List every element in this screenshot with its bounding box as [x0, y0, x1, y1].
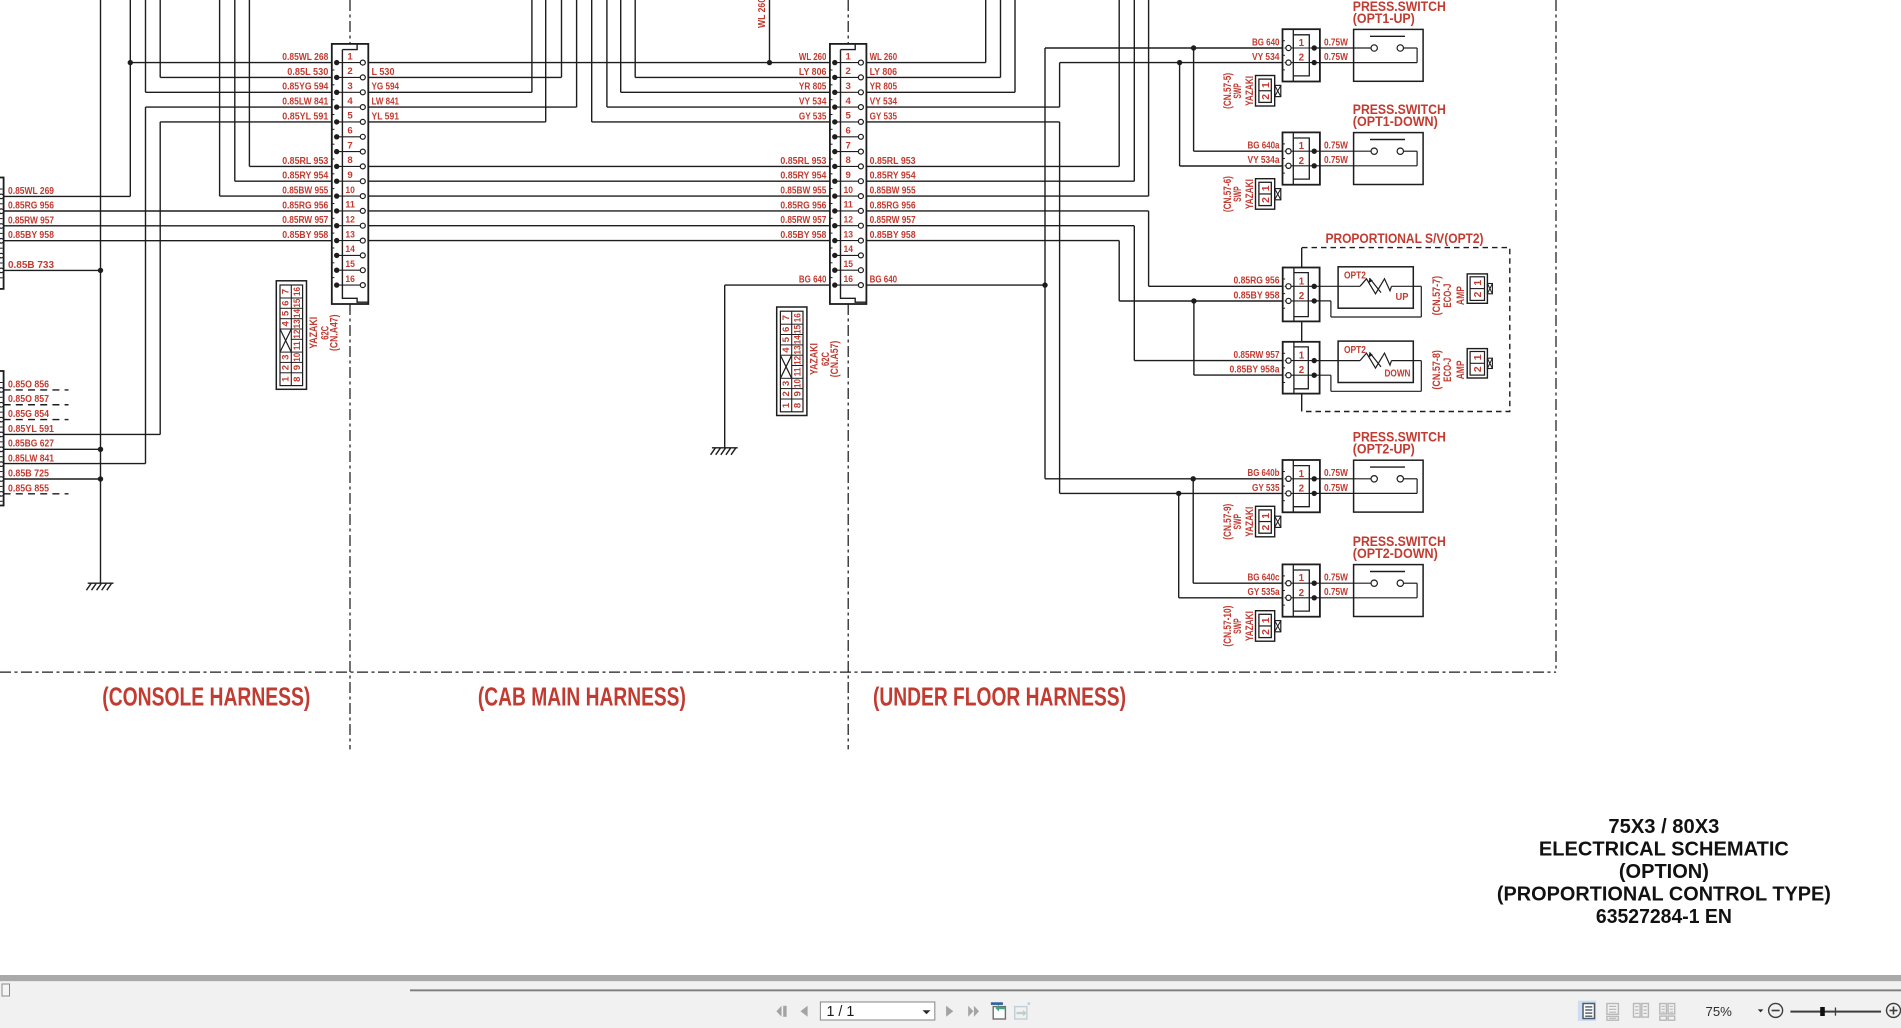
connector CN.A47 (16-pin)	[332, 44, 369, 304]
svg-text:1: 1	[1299, 573, 1305, 584]
svg-text:3: 3	[846, 81, 851, 92]
svg-text:63527284-1 EN: 63527284-1 EN	[1596, 906, 1732, 928]
svg-text:11: 11	[292, 341, 303, 351]
connector SWP CN.57-6 (2-pin)	[1283, 132, 1320, 184]
svg-text:7: 7	[781, 315, 792, 320]
svg-text:10: 10	[345, 185, 355, 196]
wire 0.85L 530 row2	[160, 76, 337, 78]
svg-text:2: 2	[1299, 483, 1305, 494]
svg-text:5: 5	[347, 111, 353, 122]
CN.A47 pin 7	[337, 151, 363, 153]
svg-text:3: 3	[281, 355, 292, 360]
wire 0.85BY 958a to PROP-DOWN pin2	[1194, 374, 1289, 376]
svg-text:YR 805: YR 805	[799, 82, 827, 93]
svg-text:15: 15	[345, 259, 355, 270]
svg-text:WL 260: WL 260	[757, 0, 768, 28]
svg-text:0.85BY 958: 0.85BY 958	[1234, 290, 1280, 301]
svg-text:DOWN: DOWN	[1385, 368, 1411, 379]
wire BG 640c to OPT2-DOWN pin1	[1193, 582, 1288, 584]
svg-text:1: 1	[781, 402, 792, 408]
wire vertical VY534a x=1179.6	[1179, 63, 1181, 166]
wire 0.85B 725	[4, 478, 101, 480]
wire vertical x=234.8 (RY954)	[234, 0, 236, 181]
CN.A47 pin 12	[337, 225, 363, 227]
svg-text:0.85BY 958: 0.85BY 958	[780, 230, 826, 241]
svg-text:0.75W: 0.75W	[1324, 483, 1349, 494]
svg-text:7: 7	[846, 140, 851, 151]
wire 0.85RL 953 right	[861, 165, 1119, 167]
wire YG 594 row3 left-mid	[363, 91, 532, 93]
svg-text:1: 1	[1299, 276, 1305, 287]
label box SWP CN.57-6	[1256, 179, 1281, 210]
svg-text:(OPT2-UP): (OPT2-UP)	[1353, 442, 1415, 458]
wire row11 middle (95x)	[363, 210, 835, 212]
svg-text:14: 14	[345, 244, 355, 255]
svg-text:15: 15	[292, 298, 303, 308]
svg-text:4: 4	[281, 321, 292, 327]
wire 0.85RG 956 right	[861, 210, 1149, 212]
svg-text:0.85RW 957: 0.85RW 957	[1234, 350, 1280, 361]
wire bus PROP bottom	[1301, 394, 1303, 412]
svg-text:0.85LW 841: 0.85LW 841	[282, 97, 328, 108]
svg-text:16: 16	[792, 313, 803, 322]
wire vertical x=1119.2 RL953	[1118, 0, 1120, 166]
wire vertical x=1000.5	[1000, 0, 1002, 77]
svg-text:9: 9	[292, 365, 303, 370]
CN.A47 pin 13	[337, 240, 363, 242]
CN.A57 pin 3	[835, 91, 861, 93]
svg-text:6: 6	[347, 126, 352, 137]
svg-text:1: 1	[1261, 513, 1272, 519]
CN.A57 pin 6	[835, 136, 861, 138]
CN.A47 pin 16	[337, 284, 363, 286]
svg-text:GY 535: GY 535	[1252, 483, 1280, 494]
wire vertical BG640c	[1192, 479, 1194, 583]
junction BG640 opt1	[1191, 45, 1196, 50]
svg-text:(CN.A47): (CN.A47)	[329, 315, 341, 352]
wire vertical x=1148.6 BW955	[1148, 0, 1150, 196]
svg-text:0.85RW 957: 0.85RW 957	[8, 215, 54, 226]
svg-text:0.85BW 955: 0.85BW 955	[870, 186, 916, 197]
svg-text:0.75W: 0.75W	[1324, 573, 1349, 584]
svg-text:YL 591: YL 591	[372, 111, 400, 122]
wire vertical x=1015.0	[1014, 0, 1016, 92]
svg-text:13: 13	[292, 319, 303, 328]
svg-text:2: 2	[1299, 588, 1305, 599]
svg-text:0.85RG 956: 0.85RG 956	[780, 200, 826, 211]
wire row8 middle (95x)	[363, 165, 835, 167]
svg-text:BG 640b: BG 640b	[1248, 468, 1280, 479]
62C pin-map label box CN.A47	[276, 281, 306, 390]
svg-text:2: 2	[1473, 366, 1484, 372]
label box AMP CN.57-8	[1467, 349, 1492, 378]
CN.A47 pin 10	[337, 195, 363, 197]
svg-text:2: 2	[1299, 53, 1305, 64]
wire 0.85RW 957 to PROP-DOWN pin1	[1134, 360, 1288, 362]
svg-text:8: 8	[347, 155, 353, 166]
svg-text:0.75W: 0.75W	[1324, 37, 1349, 48]
junction B725	[98, 476, 103, 481]
label YAZAKI SWP (CN.57-6)	[1222, 176, 1256, 212]
label YAZAKI 62C (CN.A57)	[808, 341, 841, 378]
svg-text:4: 4	[781, 347, 792, 353]
svg-text:0.85RL 953: 0.85RL 953	[282, 156, 328, 167]
wire row9 middle (95x)	[363, 180, 835, 182]
CN.A47 pin 4	[337, 106, 363, 108]
svg-text:VY 534: VY 534	[1252, 52, 1280, 63]
proportional solenoid valve OPT2 DOWN	[1314, 341, 1421, 391]
svg-text:YAZAKI: YAZAKI	[1244, 76, 1256, 106]
svg-text:8: 8	[292, 376, 303, 382]
right border dash-dot	[1555, 0, 1557, 672]
svg-text:AMP: AMP	[1455, 360, 1467, 379]
svg-text:11: 11	[345, 200, 355, 211]
wire vertical x=160.2 lower (YL591)	[159, 122, 161, 435]
wire VY 534 row4 right-mid	[607, 106, 835, 108]
svg-text:0.85O 856: 0.85O 856	[8, 379, 49, 390]
svg-text:PROPORTIONAL S/V(OPT2): PROPORTIONAL S/V(OPT2)	[1326, 231, 1484, 247]
CN.A57 pin 13	[835, 240, 861, 242]
svg-text:(CONSOLE HARNESS): (CONSOLE HARNESS)	[102, 682, 310, 712]
svg-text:1: 1	[1299, 38, 1305, 49]
svg-text:GY 535: GY 535	[799, 111, 827, 122]
label YAZAKI SWP (CN.57-5)	[1222, 73, 1256, 109]
CN.A57 pin 5	[835, 121, 861, 123]
connector SWP CN.57-5 (2-pin)	[1283, 29, 1320, 81]
junction BG640 main	[1042, 282, 1047, 287]
svg-text:10: 10	[292, 353, 303, 362]
svg-text:0.75W: 0.75W	[1324, 587, 1349, 598]
junction WL268 row1	[128, 60, 133, 65]
svg-text:11: 11	[843, 200, 853, 211]
svg-text:0.85RG 956: 0.85RG 956	[8, 200, 54, 211]
svg-text:2: 2	[1261, 629, 1272, 635]
wire LW 841 row4 left-mid	[363, 106, 577, 108]
title block	[1497, 816, 1831, 928]
label box AMP CN.57-7	[1467, 274, 1492, 303]
svg-text:(OPTION): (OPTION)	[1619, 861, 1709, 883]
CN.A47 pin 5	[337, 121, 363, 123]
svg-text:LY 806: LY 806	[870, 67, 898, 78]
svg-text:0.85B 725: 0.85B 725	[8, 468, 49, 479]
svg-text:ECO-J: ECO-J	[1442, 284, 1454, 308]
connector SWP CN.57-10 (2-pin)	[1283, 564, 1320, 616]
wire 0.85LW 841 lower	[4, 463, 146, 465]
svg-text:0.75W: 0.75W	[1324, 52, 1349, 63]
svg-text:5: 5	[281, 310, 292, 316]
wire 0.85RY 954 right	[861, 180, 1134, 182]
wire 0.85YL 591 lower	[4, 433, 161, 435]
left edge connector (upper partial)	[0, 178, 4, 289]
wire 0.85YG 594 row3	[146, 91, 337, 93]
CN.A57 pin 8	[835, 165, 861, 167]
svg-text:GY 535: GY 535	[870, 111, 898, 122]
svg-text:0.85RL 953: 0.85RL 953	[780, 156, 826, 167]
svg-text:10: 10	[843, 185, 853, 196]
wire vertical x=545.7	[545, 0, 547, 122]
svg-text:3: 3	[781, 381, 792, 386]
svg-text:BG 640a: BG 640a	[1248, 141, 1280, 152]
svg-text:12: 12	[843, 215, 853, 226]
svg-text:BG 640c: BG 640c	[1248, 573, 1280, 584]
harness boundary dash-dot (console/cab) upper	[349, 0, 351, 44]
label box SWP CN.57-10	[1256, 611, 1281, 642]
wire vertical x=249.4 (RL953)	[248, 0, 250, 166]
svg-text:0.85WL 269: 0.85WL 269	[8, 186, 54, 197]
svg-text:BG 640: BG 640	[799, 275, 827, 286]
CN.A57 pin 10	[835, 195, 861, 197]
svg-text:VY 534: VY 534	[870, 97, 898, 108]
press switch box OPT2-UP	[1314, 460, 1423, 512]
wire vertical GY535a x=1178.7	[1178, 493, 1180, 597]
wire vertical x=561.5	[561, 0, 563, 77]
svg-text:VY 534: VY 534	[799, 97, 827, 108]
svg-text:0.85YL 591: 0.85YL 591	[8, 424, 54, 435]
wire 0.85BW 955 right	[861, 195, 1149, 197]
press switch box OPT1-DOWN	[1314, 133, 1423, 185]
title PRESS.SWITCH OPT2-UP	[1353, 430, 1446, 458]
svg-text:1: 1	[1473, 280, 1484, 286]
title PRESS.SWITCH OPT2-DOWN	[1353, 534, 1446, 562]
CN.A47 pin 9	[337, 180, 363, 182]
wire vertical BY958a	[1193, 301, 1195, 375]
svg-text:0.85RL 953: 0.85RL 953	[870, 156, 916, 167]
wire vertical BG640 bus x=1045	[1044, 48, 1046, 479]
svg-text:15: 15	[792, 324, 803, 334]
svg-text:0.85BY 958: 0.85BY 958	[870, 230, 916, 241]
svg-text:6: 6	[846, 126, 851, 137]
label AMP ECO-J (CN.57-8)	[1431, 350, 1467, 390]
svg-text:12: 12	[792, 356, 803, 365]
svg-text:10: 10	[792, 379, 803, 388]
svg-text:2: 2	[781, 391, 792, 396]
svg-text:0.85L 530: 0.85L 530	[287, 67, 329, 78]
wire 0.85BY 958 row13	[4, 240, 337, 242]
wire WL 260 right	[861, 62, 986, 64]
proportional solenoid valve OPT2 UP	[1314, 267, 1421, 317]
CN.A57 pin 14	[835, 254, 861, 256]
wire vertical x=606.9	[606, 0, 608, 107]
svg-text:YAZAKI: YAZAKI	[1244, 179, 1256, 209]
svg-text:0.85RW 957: 0.85RW 957	[282, 215, 328, 226]
ground (right)	[711, 448, 738, 455]
wire YR 805 row3 right-mid	[621, 91, 835, 93]
connector ECO-J CN.57-8 (2-pin)	[1283, 342, 1320, 394]
svg-text:0.85RW 957: 0.85RW 957	[780, 215, 826, 226]
wire vertical x=219.6 (BW955)	[219, 0, 221, 196]
wire vertical x=591.7	[591, 0, 593, 122]
wire GY 535 right	[861, 121, 1060, 123]
wire 0.85WL 269	[4, 195, 131, 197]
wire vertical x=130.3 (WL269/WL268)	[129, 0, 131, 196]
svg-text:4: 4	[846, 96, 852, 107]
svg-text:0.85BY 958: 0.85BY 958	[8, 230, 54, 241]
svg-text:SWP: SWP	[1232, 514, 1244, 530]
label box SWP CN.57-5	[1256, 76, 1281, 107]
svg-text:2: 2	[1261, 94, 1272, 100]
svg-text:0.85BY 958a: 0.85BY 958a	[1230, 365, 1280, 376]
svg-text:2: 2	[846, 66, 851, 77]
svg-text:2: 2	[1473, 291, 1484, 297]
svg-text:13: 13	[843, 229, 853, 240]
svg-text:YAZAKI: YAZAKI	[808, 343, 820, 375]
svg-text:0.85BG 627: 0.85BG 627	[8, 439, 54, 450]
svg-text:YG 594: YG 594	[372, 82, 400, 93]
svg-text:0.85RG 956: 0.85RG 956	[1234, 276, 1280, 287]
wire WL 260 row1 middle	[363, 62, 835, 64]
CN.A57 pin 11	[835, 210, 861, 212]
svg-text:2: 2	[1261, 524, 1272, 530]
wire vertical GY535 x=1059.6	[1059, 122, 1061, 494]
wire 0.85RG 956 to PROP-UP pin1	[1149, 285, 1289, 287]
CN.A57 pin 1	[835, 62, 861, 64]
wire vertical BY958 down	[1118, 241, 1120, 301]
svg-text:2: 2	[1299, 365, 1305, 376]
svg-text:0.85B 733: 0.85B 733	[8, 260, 55, 271]
title PRESS.SWITCH OPT1-UP	[1353, 0, 1446, 27]
svg-text:0.85RW 957: 0.85RW 957	[870, 215, 916, 226]
wire vertical x=576.6	[576, 0, 578, 107]
svg-text:11: 11	[792, 367, 803, 377]
wire 0.85RW 957 right	[861, 225, 1134, 227]
junction BG627	[98, 447, 103, 452]
wire vertical x=1134.3 RY954	[1133, 0, 1135, 181]
press switch box OPT1-UP	[1314, 29, 1423, 81]
svg-text:1: 1	[1299, 469, 1305, 480]
svg-text:0.85YG 594: 0.85YG 594	[282, 82, 328, 93]
connector CN.A57 (16-pin)	[830, 44, 867, 304]
svg-text:2: 2	[1261, 197, 1272, 203]
svg-text:0.85BW 955: 0.85BW 955	[282, 186, 328, 197]
wire LY 806 right	[861, 76, 1001, 78]
svg-text:9: 9	[792, 391, 803, 396]
CN.A57 pin 12	[835, 225, 861, 227]
svg-text:2: 2	[347, 66, 352, 77]
CN.A47 pin 15	[337, 269, 363, 271]
svg-text:L 530: L 530	[372, 67, 396, 78]
svg-text:YAZAKI: YAZAKI	[308, 317, 320, 349]
svg-text:(CAB MAIN HARNESS): (CAB MAIN HARNESS)	[478, 682, 686, 712]
svg-text:(PROPORTIONAL CONTROL TYPE): (PROPORTIONAL CONTROL TYPE)	[1497, 884, 1831, 906]
wire VY 534 right	[861, 106, 1060, 108]
wire vertical WL260 x=769.5	[769, 0, 771, 63]
svg-text:8: 8	[846, 155, 852, 166]
CN.A57 pin 15	[835, 269, 861, 271]
svg-text:BG 640: BG 640	[1252, 37, 1280, 48]
wire 0.85BY 958 to PROP-UP pin2	[1119, 300, 1288, 302]
left edge connector (lower partial)	[0, 371, 4, 506]
svg-text:2: 2	[1299, 291, 1305, 302]
CN.A57 pin 2	[835, 76, 861, 78]
svg-text:4: 4	[347, 96, 353, 107]
wire GY 535 to OPT2-UP pin2	[1060, 492, 1289, 494]
wire bus into PROP connectors top	[1301, 248, 1303, 268]
harness boundary dash-dot (console/cab) lower	[349, 304, 351, 749]
dashed box PROPORTIONAL S/V(OPT2)	[1302, 248, 1510, 412]
svg-text:OPT2: OPT2	[1344, 345, 1366, 356]
junction VY534	[1177, 60, 1182, 65]
svg-text:75X3 / 80X3: 75X3 / 80X3	[1608, 816, 1719, 838]
dashed stub wire 0.85O 856	[4, 389, 69, 391]
CN.A57 pin 16	[835, 284, 861, 286]
wire 0.85B 733	[4, 269, 101, 271]
62C pin-map label box CN.A57	[777, 307, 807, 416]
svg-text:0.85LW 841: 0.85LW 841	[8, 454, 54, 465]
svg-text:(OPT1-UP): (OPT1-UP)	[1353, 11, 1415, 27]
wire LY 806 row2 right-mid	[635, 76, 835, 78]
CN.A47 pin 6	[337, 136, 363, 138]
harness boundary dash-dot (cab/floor) upper	[847, 0, 849, 44]
svg-text:BG 640: BG 640	[870, 275, 898, 286]
svg-text:0.85BW 955: 0.85BW 955	[780, 186, 826, 197]
wire 0.85LW 841 row4	[146, 106, 337, 108]
svg-text:(OPT1-DOWN): (OPT1-DOWN)	[1353, 114, 1438, 130]
svg-text:(CN.A57): (CN.A57)	[829, 341, 841, 378]
wire vertical RW957 down	[1133, 226, 1135, 361]
svg-text:16: 16	[292, 287, 303, 296]
wire vertical RG956 down	[1148, 211, 1150, 286]
label YAZAKI SWP (CN.57-9)	[1222, 504, 1256, 540]
svg-text:0.85G 855: 0.85G 855	[8, 483, 49, 494]
svg-text:1 / 1: 1 / 1	[827, 1004, 855, 1020]
label AMP ECO-J (CN.57-7)	[1431, 276, 1467, 316]
label YAZAKI SWP (CN.57-10)	[1222, 606, 1256, 647]
wire 0.85RW 957 row12	[4, 225, 337, 227]
wire vertical x=100.5 (B733/BG627/B725 ground bus)	[100, 0, 102, 583]
svg-text:0.85RY 954: 0.85RY 954	[780, 171, 826, 182]
wire vertical x=145.5 upper (YG594)	[145, 0, 147, 92]
CN.A57 pin 9	[835, 180, 861, 182]
svg-text:1: 1	[1299, 351, 1305, 362]
junction GY535	[1176, 491, 1181, 496]
svg-text:1: 1	[1299, 141, 1305, 152]
svg-text:VY 534a: VY 534a	[1248, 155, 1280, 166]
wire vertical x=985.7	[985, 0, 987, 63]
svg-text:LW 841: LW 841	[372, 97, 400, 108]
svg-text:1: 1	[1261, 185, 1272, 191]
svg-text:1: 1	[1261, 82, 1272, 88]
svg-text:WL 260: WL 260	[870, 52, 898, 63]
svg-text:16: 16	[843, 274, 853, 285]
svg-text:0.85RG 956: 0.85RG 956	[870, 200, 916, 211]
svg-text:75%: 75%	[1706, 1004, 1733, 1019]
svg-text:SWP: SWP	[1232, 618, 1244, 634]
wire GY 535 row5 right-mid	[592, 121, 835, 123]
svg-text:0.85O 857: 0.85O 857	[8, 394, 49, 405]
wire VY 534a to OPT1-DOWN pin2	[1180, 165, 1289, 167]
wire vertical x=620.7	[620, 0, 622, 92]
svg-text:13: 13	[345, 229, 355, 240]
svg-text:6: 6	[781, 327, 792, 332]
wire bus between PROP connectors	[1301, 322, 1303, 342]
svg-text:ELECTRICAL SCHEMATIC: ELECTRICAL SCHEMATIC	[1539, 839, 1789, 861]
wire BG 640 left of CN.A57	[725, 284, 835, 286]
junction BG640 opt2	[1191, 476, 1196, 481]
wire 0.85RG 956 row11	[4, 210, 337, 212]
wire L 530 row2 left-mid	[363, 76, 562, 78]
svg-text:WL 260: WL 260	[799, 52, 827, 63]
svg-text:0.85RG 956: 0.85RG 956	[282, 200, 328, 211]
connector SWP CN.57-9 (2-pin)	[1283, 460, 1320, 512]
svg-text:1: 1	[347, 51, 353, 62]
wire 0.85BY 958 right	[861, 240, 1119, 242]
CN.A47 pin 11	[337, 210, 363, 212]
svg-text:7: 7	[281, 289, 292, 294]
svg-text:LY 806: LY 806	[799, 67, 827, 78]
wire BG 640 right of CN.A57	[861, 284, 1045, 286]
svg-text:0.85G 854: 0.85G 854	[8, 409, 49, 420]
wire 0.85RY 954 row9 left	[235, 180, 337, 182]
